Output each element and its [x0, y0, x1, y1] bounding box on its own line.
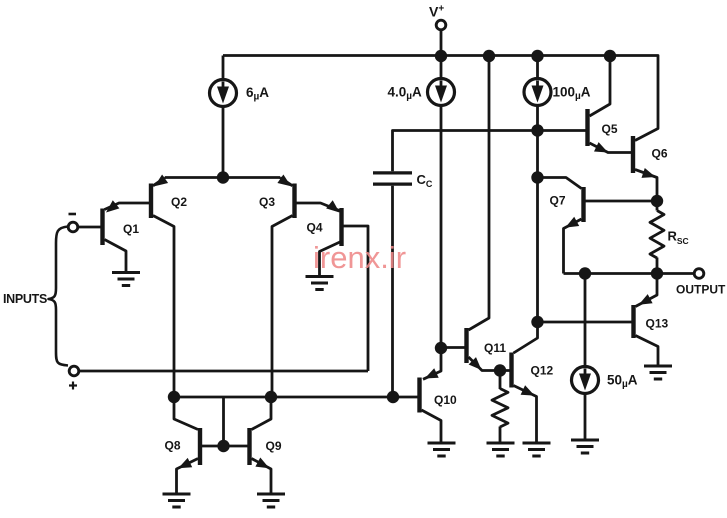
- svg-text:Q2: Q2: [171, 195, 187, 209]
- svg-text:Q11: Q11: [484, 341, 506, 355]
- svg-text:Q8: Q8: [165, 439, 181, 453]
- svg-text:irenx.ir: irenx.ir: [313, 240, 406, 275]
- svg-text:100µA: 100µA: [553, 85, 591, 103]
- svg-text:Q6: Q6: [652, 147, 668, 161]
- svg-text:Q7: Q7: [550, 194, 566, 208]
- svg-text:Q4: Q4: [307, 221, 323, 235]
- svg-text:Q13: Q13: [646, 317, 669, 331]
- svg-text:Q1: Q1: [123, 222, 139, 236]
- svg-text:OUTPUT: OUTPUT: [676, 283, 726, 297]
- svg-text:Q9: Q9: [266, 439, 282, 453]
- svg-text:Q12: Q12: [531, 364, 554, 378]
- svg-text:4.0µA: 4.0µA: [388, 85, 423, 103]
- svg-text:Q5: Q5: [602, 122, 618, 136]
- svg-text:Q10: Q10: [434, 393, 457, 407]
- svg-text:INPUTS: INPUTS: [3, 292, 47, 306]
- svg-text:Q3: Q3: [259, 195, 275, 209]
